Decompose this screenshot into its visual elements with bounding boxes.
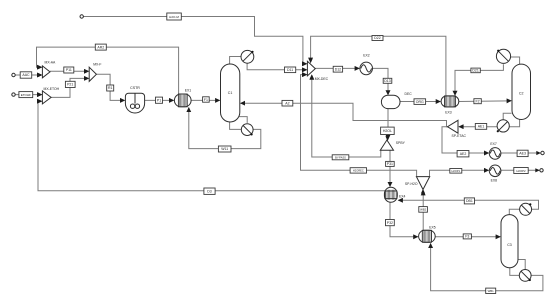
wire C2 reboiler vapor return — [503, 113, 511, 119]
feed terminal H2O-M — [80, 15, 83, 18]
svg-text:SP-ETAC: SP-ETAC — [452, 134, 467, 138]
flash EX5 (hatched drum) — [419, 225, 436, 242]
reboiler of C3 — [519, 270, 531, 282]
svg-text:F1: F1 — [204, 98, 208, 102]
stream label DB1 — [464, 198, 474, 204]
svg-text:P11: P11 — [66, 68, 72, 72]
svg-text:EX3: EX3 — [445, 110, 452, 114]
wire C1 bottoms to reboiler — [230, 122, 242, 130]
decanter DEC — [381, 92, 412, 109]
column C1 — [221, 64, 240, 122]
svg-text:SP-H2O: SP-H2O — [405, 182, 418, 186]
cooler EX8 — [489, 165, 501, 182]
svg-text:D21: D21 — [472, 69, 478, 73]
svg-text:H2OP1: H2OP1 — [452, 169, 461, 173]
svg-text:F2: F2 — [476, 100, 480, 104]
stream label W11 — [218, 146, 231, 152]
stream label D12 — [333, 66, 342, 72]
wire stream AAC: acetic acid feed to MX-AA — [15, 74, 41, 76]
svg-text:D22: D22 — [374, 36, 380, 40]
mixer MX-DEC — [303, 59, 316, 79]
wire stream D22: flash EX3 vapor recycle to MX-DEC — [311, 36, 446, 96]
svg-text:AE2: AE2 — [460, 152, 467, 156]
stream label AE3 — [517, 150, 528, 156]
stream label D11 — [285, 67, 296, 73]
stream label ETOHF — [19, 92, 33, 98]
wire stream F2: EX3 outlet to column C2 — [459, 100, 511, 103]
svg-text:D11: D11 — [287, 68, 293, 72]
svg-text:H2OP2: H2OP2 — [516, 169, 526, 173]
wire stream WB1: C3 reboiler to exchanger EX5 — [431, 244, 543, 291]
wire C3 reboiler vapor return — [518, 260, 525, 271]
reactor CSTR vessel with agitator — [125, 86, 144, 113]
stream label A2 — [282, 100, 293, 106]
svg-text:DB1: DB1 — [466, 199, 473, 203]
wire stream P31: SP-BY to flash EX4 — [389, 150, 391, 186]
svg-text:D12: D12 — [335, 68, 341, 72]
wire stream H2OREC: splitter SP-H2O recycle to MX-DEC — [301, 75, 417, 177]
svg-text:WB2: WB2 — [420, 208, 427, 212]
svg-text:MX-F: MX-F — [93, 62, 101, 66]
wire stream BY-PASS: SP-BY to MX-DEC — [312, 75, 381, 157]
svg-text:D3: D3 — [207, 189, 212, 193]
svg-text:MX-AA: MX-AA — [45, 61, 56, 65]
stream label F3 — [463, 234, 471, 239]
svg-text:F3: F3 — [465, 235, 469, 239]
wire stream D12: MX-DEC outlet to heater EX2 — [315, 67, 359, 69]
stream label P11 — [64, 67, 74, 73]
wire stream AR2: flash EX1 vapor to mixer MX-AA — [37, 47, 179, 94]
stream label H2OREC — [350, 168, 366, 173]
svg-text:D13: D13 — [384, 79, 390, 83]
wire stream H2OL: decanter aqueous phase to splitter SP-BY — [387, 109, 389, 140]
svg-text:P32: P32 — [387, 221, 393, 225]
svg-text:C1: C1 — [228, 91, 233, 95]
stream label D3 — [204, 188, 215, 194]
feed terminal AAC — [12, 73, 15, 76]
splitter SP-H2O — [405, 177, 430, 194]
svg-text:BY-PASS: BY-PASS — [335, 156, 346, 160]
condenser of C1 — [241, 50, 254, 63]
wire stream AE3: EX7 to ethyl-acetate product terminal — [501, 152, 540, 154]
wire stream P21: MX-ETOH outlet to MX-F — [51, 78, 88, 97]
condenser of C2 — [496, 49, 510, 63]
condenser of C3 — [520, 203, 532, 215]
column C3 — [501, 215, 518, 268]
svg-text:ORG: ORG — [416, 100, 424, 104]
stream label P31 — [386, 161, 395, 166]
svg-text:AAC: AAC — [22, 73, 30, 77]
stream label F1 — [203, 97, 210, 102]
wire stream H2O-M: feed terminal to mixer MX-DEC — [84, 17, 307, 64]
flash EX4 (hatched drum) — [384, 187, 405, 202]
wire C1 overhead vapor to condenser — [230, 57, 241, 65]
wire stream P32: EX4 bottoms to exchanger EX5 — [390, 203, 418, 237]
stream label P1 — [156, 97, 163, 103]
svg-text:EX2: EX2 — [363, 54, 370, 58]
reboiler of C2 — [497, 120, 510, 132]
svg-text:WB1: WB1 — [488, 289, 495, 293]
svg-text:H2OL: H2OL — [383, 129, 392, 133]
wire stream P1: CSTR outlet to exchanger EX1 — [145, 99, 174, 101]
wire stream D3: flash EX4 recycle to MX-ETOH — [38, 101, 386, 191]
stream label AE2 — [457, 151, 469, 157]
wire stream AE2: SP-ETAC to cooler EX7 — [442, 127, 489, 153]
wire stream F1: EX1 outlet to column C1 — [191, 99, 220, 101]
product terminal H2OP2 (water) — [535, 168, 543, 172]
svg-text:AE3: AE3 — [519, 152, 526, 156]
label MX-DEC — [315, 77, 329, 81]
column C2 — [512, 64, 531, 119]
feed terminal ETOHF — [12, 93, 15, 96]
stream label D13 — [383, 78, 392, 83]
wire stream H2OP2: EX8 to water product terminal — [501, 169, 538, 171]
mixer MX-AA — [38, 61, 56, 78]
svg-text:A2: A2 — [285, 102, 289, 106]
svg-text:H2O-M: H2O-M — [169, 15, 179, 19]
wire stream R1: MX-F outlet to reactor CSTR — [96, 74, 124, 100]
svg-text:R1: R1 — [108, 86, 113, 90]
wire C3 overhead vapor to condenser — [509, 209, 519, 215]
mixer MX-ETOH — [38, 87, 60, 104]
wire stream F3: EX5 outlet to column C3 — [435, 236, 500, 238]
wire stream ETOHF: ethanol feed to MX-ETOH — [15, 94, 41, 96]
wire stream H2OP1: SP-H2O to cooler EX8 — [430, 170, 489, 176]
wire stream A2: splitter SP-ETAC recycle to column C1 — [241, 103, 448, 127]
svg-text:SPBY: SPBY — [396, 141, 406, 145]
wire stream D21: C2 condenser to flash EX3 — [455, 64, 503, 95]
svg-text:EX1: EX1 — [185, 89, 192, 93]
svg-text:CSTR: CSTR — [130, 86, 140, 90]
wire stream P11: MX-AA outlet to MX-F — [50, 70, 88, 72]
svg-text:P21: P21 — [67, 83, 73, 87]
svg-text:MX-DEC: MX-DEC — [315, 77, 329, 81]
stream label AE1 — [475, 124, 486, 130]
svg-text:EX4: EX4 — [399, 195, 406, 199]
svg-text:W11: W11 — [221, 147, 228, 151]
stream label AR2 — [95, 44, 106, 50]
wire C2 overhead vapor to condenser — [511, 57, 520, 64]
reboiler of C1 — [241, 124, 253, 136]
product terminal AE3 (ethyl acetate) — [536, 151, 544, 155]
wire stream WB2: flash EX5 overhead to splitter SP-H2O — [422, 191, 424, 231]
stream label D21 — [471, 68, 480, 73]
stream label P32 — [386, 220, 395, 226]
stream label ORG — [414, 99, 426, 105]
svg-text:C3: C3 — [507, 243, 512, 247]
svg-text:EX8: EX8 — [491, 178, 498, 182]
stream label H2OP1 — [450, 169, 462, 174]
wire stream W11: C1 reboiler to exchanger EX1 — [189, 108, 261, 149]
wire stream DB1: C3 condenser to flash EX4 — [398, 200, 538, 209]
stream label AAC — [20, 72, 32, 78]
stream label BY-PASS — [332, 155, 349, 160]
stream label H2OP2 — [514, 168, 528, 174]
svg-text:AR2: AR2 — [97, 45, 104, 49]
svg-text:AE1: AE1 — [478, 125, 485, 129]
wire C1 reboiler vapor return — [238, 117, 247, 123]
stream label H2OL — [381, 127, 395, 134]
splitter SP-ETAC — [448, 120, 467, 138]
wire C2 bottoms to reboiler — [509, 119, 519, 126]
splitter SP-BY — [380, 136, 405, 150]
svg-text:EX7: EX7 — [490, 142, 497, 146]
svg-text:P31: P31 — [387, 162, 393, 166]
stream label F2 — [474, 99, 481, 104]
heater EX2 — [360, 54, 373, 75]
stream label R1 — [107, 85, 114, 91]
svg-text:EX5: EX5 — [429, 225, 436, 229]
flash EX3 (hatched drum) — [441, 96, 459, 114]
stream label D22 — [372, 36, 383, 41]
svg-text:C2: C2 — [519, 92, 524, 96]
wire stream D13: EX2 outlet to decanter DEC — [373, 68, 388, 94]
exchanger EX1 (hatched drum) — [174, 89, 191, 107]
stream label WB2 — [419, 207, 428, 213]
stream label P21 — [65, 81, 75, 87]
wire C3 bottoms to reboiler — [510, 268, 519, 276]
svg-text:MX-ETOH: MX-ETOH — [44, 87, 60, 91]
wire stream AE1: C2 reboiler to splitter SP-ETAC — [459, 126, 497, 128]
svg-text:ETOHF: ETOHF — [21, 93, 31, 97]
stream label H2O-M — [167, 13, 182, 20]
wire stream ORG: decanter organic phase to flash EX3 — [400, 101, 440, 103]
svg-text:P1: P1 — [157, 99, 161, 103]
mixer MX-F — [85, 62, 102, 81]
svg-text:DEC: DEC — [405, 92, 413, 96]
stream label WB1 — [486, 288, 496, 293]
cooler EX7 — [489, 142, 501, 159]
svg-text:H2OREC: H2OREC — [353, 169, 364, 173]
wire stream D11: C1 condenser to mixer MX-DEC — [247, 63, 307, 70]
